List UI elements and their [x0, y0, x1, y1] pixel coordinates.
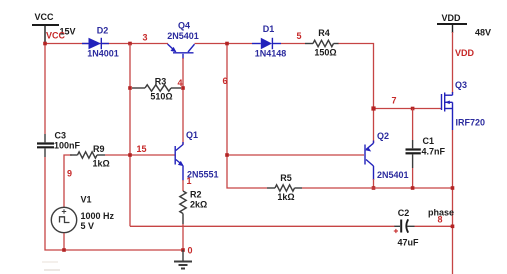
svg-text:100nF: 100nF — [54, 141, 81, 151]
junction node6 base — [225, 153, 229, 157]
junction node0 — [181, 248, 185, 252]
ground — [174, 250, 192, 269]
resistor R9 — [64, 144, 110, 207]
junction C1 R5 — [411, 186, 415, 190]
wire C2 line y226 — [130, 225, 395, 227]
svg-text:4.7nF: 4.7nF — [422, 147, 446, 157]
wire node6 vertical — [227, 44, 267, 189]
svg-text:48V: 48V — [475, 28, 491, 38]
svg-text:R5: R5 — [280, 173, 292, 183]
svg-text:D1: D1 — [263, 24, 275, 34]
svg-text:C2: C2 — [398, 208, 410, 218]
svg-text:510Ω: 510Ω — [150, 92, 172, 102]
wire R2 to ground — [182, 224, 184, 250]
page corner mark — [42, 261, 58, 263]
svg-text:0: 0 — [188, 246, 193, 256]
svg-text:VDD: VDD — [442, 13, 462, 23]
svg-text:1000 Hz: 1000 Hz — [81, 211, 115, 221]
svg-text:V1: V1 — [81, 195, 92, 205]
svg-text:47uF: 47uF — [397, 238, 419, 248]
wire node4 vertical x183 — [182, 58, 184, 145]
svg-text:Q1: Q1 — [186, 130, 198, 140]
svg-text:1: 1 — [187, 176, 192, 186]
wire Q2 base — [227, 154, 364, 156]
wire rail D1 to R4 — [281, 43, 305, 45]
svg-text:D2: D2 — [97, 26, 109, 36]
svg-text:1kΩ: 1kΩ — [277, 192, 294, 202]
svg-text:150Ω: 150Ω — [314, 48, 336, 58]
capacitor C2 — [394, 208, 419, 248]
svg-text:C3: C3 — [55, 131, 67, 141]
junction source R5 — [451, 186, 455, 190]
wire VDD to Q3 drain — [452, 32, 454, 93]
junction node3 — [128, 42, 132, 46]
svg-text:2kΩ: 2kΩ — [190, 200, 207, 210]
source V1 — [51, 195, 114, 233]
wire node7 horizontal — [374, 108, 442, 110]
svg-text:15: 15 — [137, 144, 147, 154]
junction node7 corner — [371, 106, 375, 110]
resistor R2 — [180, 180, 207, 224]
svg-text:Q4: Q4 — [178, 21, 190, 31]
svg-text:5: 5 — [296, 31, 301, 41]
junction node7 C1 — [411, 107, 415, 111]
capacitor C1 — [406, 109, 446, 189]
svg-text:VCC: VCC — [46, 31, 66, 41]
wire node3 vertical x130 — [129, 44, 131, 227]
svg-text:2N5401: 2N5401 — [167, 31, 199, 41]
resistor R3 — [132, 77, 181, 102]
wire C3 to bottom rail — [45, 157, 183, 250]
wire rail R4 to node7 corner — [338, 44, 374, 144]
svg-text:6: 6 — [223, 76, 228, 86]
wire Q3 source down — [452, 130, 454, 274]
svg-text:1kΩ: 1kΩ — [93, 159, 110, 169]
svg-text:3: 3 — [142, 33, 147, 43]
wire Q2 collector to R5 line — [373, 179, 375, 188]
svg-text:VDD: VDD — [455, 48, 475, 58]
capacitor C3 — [37, 44, 81, 158]
power symbol VDD — [437, 13, 491, 38]
svg-text:Q3: Q3 — [455, 80, 467, 90]
wire V1 to bottom rail — [63, 233, 65, 250]
junction V1 bottom — [62, 248, 66, 252]
svg-text:R9: R9 — [93, 144, 105, 154]
svg-text:C1: C1 — [423, 136, 435, 146]
diode D2 — [82, 26, 119, 59]
junction node3 R3 — [128, 86, 132, 90]
svg-text:7: 7 — [392, 96, 397, 106]
wire C2 right to phase — [415, 225, 453, 227]
junction rail VCC stem — [43, 42, 47, 46]
junction rail node6 — [225, 42, 229, 46]
junction node4 R3 — [181, 86, 185, 90]
wire node15 — [105, 154, 175, 156]
transistor Q1 — [175, 130, 218, 181]
svg-text:2N5401: 2N5401 — [377, 170, 409, 180]
svg-text:Q2: Q2 — [377, 131, 389, 141]
wire top rail — [45, 43, 168, 45]
mosfet Q3 — [442, 80, 486, 130]
transistor Q2 — [365, 131, 409, 180]
power symbol VCC — [32, 12, 76, 42]
junction source C2 — [451, 225, 455, 229]
wire R5 line to phase vertical — [302, 187, 453, 189]
svg-text:R2: R2 — [190, 190, 202, 200]
svg-text:VCC: VCC — [35, 12, 55, 22]
junction Q2 R5 — [372, 186, 376, 190]
wire rail Q4 to node6 — [195, 43, 253, 45]
svg-text:R4: R4 — [318, 28, 330, 38]
svg-text:1N4001: 1N4001 — [87, 49, 119, 59]
svg-text:8: 8 — [438, 215, 443, 225]
resistor R5 — [267, 173, 302, 202]
svg-text:1N4148: 1N4148 — [255, 49, 287, 59]
svg-text:IRF720: IRF720 — [456, 118, 486, 128]
svg-text:R3: R3 — [155, 77, 167, 87]
transistor Q4 — [167, 21, 199, 60]
junction node15 — [128, 153, 132, 157]
svg-text:9: 9 — [67, 169, 72, 179]
resistor R4 — [305, 28, 339, 58]
svg-text:5 V: 5 V — [81, 221, 95, 231]
diode D1 — [252, 24, 286, 59]
svg-text:2N5551: 2N5551 — [187, 170, 219, 180]
